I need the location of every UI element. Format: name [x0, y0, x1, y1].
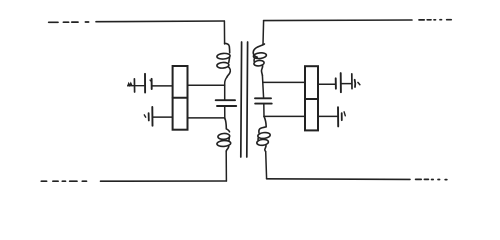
crystal pair Y1/Y2 left box [173, 66, 188, 130]
inductor L2 bottom-left winding [217, 118, 231, 152]
capacitor C1 upper-left (tall plate) [144, 74, 146, 93]
transformer core T1 [241, 42, 248, 157]
wire top-right horizontal [264, 19, 412, 22]
terminal squiggle upper-left [128, 83, 133, 86]
wire right winding vertical (coil to capacitor) [262, 75, 263, 98]
capacitor C-right (between winding taps) [255, 98, 272, 103]
wire left winding vertical (top tap to capacitor) [225, 77, 227, 99]
wire top-left dashed lead-in [49, 21, 89, 23]
plate upper-right terminal [351, 74, 353, 89]
inductor L4 bottom-right winding [257, 116, 271, 151]
capacitor C2 lower-left (tall plate) [151, 107, 153, 126]
wire bottom-left horizontal [101, 180, 227, 182]
terminal squiggle upper-right [358, 82, 360, 84]
wire right box to C4 [318, 115, 337, 117]
tick lower-left terminal [144, 115, 145, 117]
wire bottom-right vertical [265, 152, 268, 179]
wire bottom-right dashed lead-out [416, 178, 447, 180]
wire C1 to left box [153, 85, 173, 87]
inductor L1 top-left winding [217, 43, 231, 77]
dash upper-right terminal [354, 80, 357, 87]
capacitor C4 lower-right (tall plate) [337, 107, 339, 126]
plate upper-left terminal [133, 79, 135, 92]
wire upper tap to left box [188, 84, 225, 86]
capacitor C-left (between winding taps) [216, 100, 237, 106]
capacitor C3 upper-right (tall plate) [340, 73, 342, 92]
wire upper-left terminal to capacitor [128, 85, 144, 87]
wire top-left horizontal [96, 20, 224, 23]
wire top-right dashed lead-out [419, 19, 451, 21]
capacitor C3 upper-right (short plate) [335, 78, 337, 88]
wire lower tap to left box [188, 117, 225, 119]
wire left winding vertical (capacitor to lower tap) [224, 106, 226, 119]
wire bottom-right horizontal [267, 178, 410, 181]
capacitor C2 lower-left (short plate) [148, 113, 150, 120]
wire upper tap to right box [263, 81, 305, 83]
wire C2 to left box [153, 116, 172, 118]
capacitor C1 upper-left (short plate) [151, 79, 153, 89]
wire top-right vertical drop [262, 21, 265, 45]
wire lower tap to right box [264, 115, 305, 117]
capacitor C4 lower-right (short plate) [341, 113, 343, 120]
tick on C1 short plate [150, 80, 152, 82]
wire C3 to upper-right terminal [342, 83, 351, 85]
wire right winding vertical (capacitor to lower tap) [263, 104, 265, 117]
wire bottom-left dashed lead-out [41, 180, 86, 182]
wire bottom-left vertical [225, 152, 227, 181]
wire right box to C3 [318, 83, 335, 85]
wire top-left vertical drop [223, 21, 225, 44]
inductor L3 top-right winding [253, 44, 267, 75]
crystal pair Y3/Y4 right box [305, 66, 318, 130]
tick lower-right terminal [344, 112, 345, 116]
